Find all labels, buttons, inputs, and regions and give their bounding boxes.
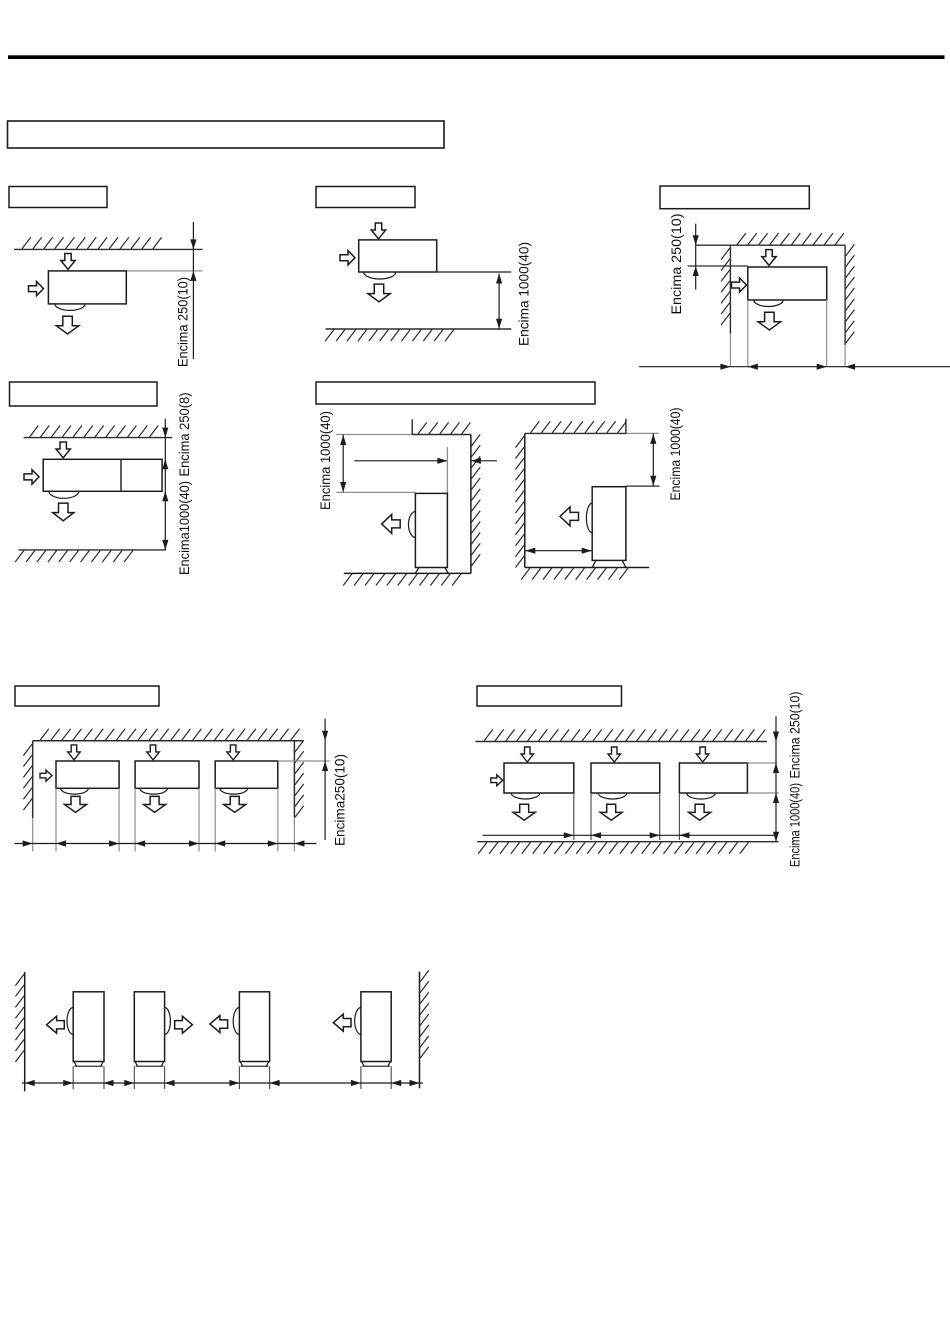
D1 ceiling hatch [22, 237, 162, 249]
D4 fan arc [49, 491, 79, 498]
D1 arrowhead at unit top [190, 271, 196, 281]
D8 unit3 outlet arrow [210, 1016, 228, 1033]
D6 unit 3 left extension line [214, 788, 216, 851]
D4 dimension line [164, 419, 166, 550]
svg-text:Encima1000(40): Encima1000(40) [177, 481, 192, 575]
D7 unit 2 [591, 763, 660, 793]
svg-text:Encima 1000(40): Encima 1000(40) [788, 783, 803, 867]
D2 indoor unit [359, 240, 437, 272]
D1 side intake arrow [29, 282, 44, 296]
D6 unit 3 fan arc [220, 788, 248, 794]
D6 unit3 top extension line [278, 760, 330, 762]
D6 arrowhead at unit top [322, 761, 328, 771]
D6 unit 2 outlet arrow [144, 796, 166, 812]
D7 unit 2 fan arc [598, 793, 627, 799]
D5L ceiling line [412, 434, 471, 436]
D5L ceiling extension line [336, 434, 412, 436]
D5R left wall [524, 433, 526, 567]
D5 label box [316, 382, 595, 404]
D7 floor line [477, 841, 778, 843]
D5L floor unit [415, 493, 447, 567]
D7 unit3 bottom extension line [747, 792, 779, 794]
D7 arrowheads [773, 732, 779, 842]
D8 unit 3 left extension line [238, 1066, 240, 1089]
D7 right dimension line [775, 716, 777, 841]
D8 unit 4 right extension line [390, 1066, 392, 1089]
D2 outlet arrow [368, 284, 390, 302]
D1 unit-top extension line [126, 270, 202, 272]
D7 unit 3 intake arrow [696, 747, 709, 762]
D5L arrowhead right [437, 458, 447, 464]
D5R ceiling line [525, 432, 626, 434]
D7 extension lines to bottom dim [574, 793, 680, 840]
D2 arrowhead bottom [496, 319, 502, 329]
D3 arrowhead at ceiling [693, 235, 699, 245]
D6 right wall hatch [295, 740, 304, 817]
D3 left wall hatch [721, 248, 730, 325]
D5R unit feet [592, 560, 626, 567]
D5L wall hatch [471, 434, 480, 566]
D8 unit 2 left extension line [133, 1066, 135, 1089]
D4 indoor unit with duct [43, 459, 162, 491]
D5R floor hatch [521, 568, 628, 580]
D8 unit 3 right extension line [269, 1066, 271, 1089]
D8 left wall hatch [15, 974, 24, 1062]
D5L floor hatch [343, 574, 461, 586]
D2 arrowhead top [496, 274, 502, 284]
D7 unit 2 outlet arrow [600, 804, 622, 820]
D6 unit 2 fan arc [140, 788, 168, 794]
D6 unit 2 [135, 761, 199, 788]
D8 unit2 outlet arrow [175, 1016, 193, 1033]
D3 left wall extension [729, 334, 731, 367]
D4 side intake arrow [24, 470, 39, 484]
D3 ceiling line [696, 244, 845, 246]
D5R arrowhead bottom [650, 476, 656, 486]
D6 arrowhead at ceiling [322, 731, 328, 741]
D2 fan arc [364, 272, 396, 279]
D6 unit 2 left extension line [134, 788, 136, 851]
D5R floor line [525, 567, 649, 569]
D8 unit 3 [239, 992, 269, 1062]
D5L outlet arrow [382, 514, 401, 533]
D3 label box [660, 186, 809, 209]
D7 floor hatch [478, 842, 748, 854]
D5L unit-top extension line [336, 491, 415, 493]
D8 unit 2 right extension line [164, 1066, 166, 1089]
D3 unit-right extension line [826, 300, 828, 367]
D5R bottom dimension line [525, 550, 592, 552]
svg-text:Encima 250(10): Encima 250(10) [788, 692, 803, 779]
D1 intake arrow [61, 254, 75, 270]
D1 indoor unit [48, 271, 126, 304]
svg-text:Encima 250(8): Encima 250(8) [177, 393, 192, 477]
D5R wall hatch [516, 436, 525, 568]
title box (empty) [8, 121, 445, 148]
D8 unit 2 feet [135, 1062, 164, 1067]
D3 side intake arrow [732, 278, 747, 292]
D1 arrowhead at ceiling [190, 239, 196, 249]
D3 right wall hatch [846, 244, 855, 343]
D6 unit 1 intake arrow [68, 745, 81, 760]
D5L right wall [470, 435, 472, 574]
D8 unit1 outlet arrow [47, 1016, 65, 1033]
D2 floor hatch [325, 330, 454, 342]
D6 unit 3 outlet arrow [224, 796, 246, 812]
D8 unit 2 [134, 992, 164, 1062]
D3 unit-left extension line [747, 300, 749, 367]
D7 unit 2 intake arrow [608, 747, 621, 762]
D7 side intake arrow [491, 775, 503, 786]
D3 indoor unit [748, 267, 827, 300]
D5L wall-side tail line [471, 460, 497, 462]
D8 right wall hatch [420, 970, 429, 1058]
D5R ceiling extension line [626, 432, 659, 434]
D3 intake arrow [762, 250, 776, 266]
D7 unit 3 outlet arrow [689, 804, 711, 820]
D4 floor line [19, 549, 167, 551]
D6 left wall hatch [23, 744, 32, 810]
D5L ceiling hatch [418, 422, 470, 434]
D2 side intake arrow [340, 251, 355, 265]
D5L unit feet [415, 568, 448, 574]
D8 unit 1 [73, 992, 104, 1062]
D6 unit 2 right extension line [198, 788, 200, 851]
page top rule [8, 55, 945, 59]
svg-text:Encima 1000(40): Encima 1000(40) [668, 408, 683, 501]
svg-text:Encima 1000(40): Encima 1000(40) [517, 242, 532, 346]
D5L unit-right extension line [446, 447, 448, 493]
D4 ceiling hatch [30, 426, 159, 438]
D6 ceiling line [33, 740, 303, 742]
D3 bottom dimension line [639, 366, 950, 368]
D5R arrowhead left [525, 548, 535, 554]
D6 left wall extension [32, 818, 34, 852]
D7 unit 1 fan arc [511, 793, 540, 799]
D8 unit2 fan arc [165, 1008, 171, 1035]
svg-text:Encima250(10): Encima250(10) [333, 754, 348, 846]
D8 unit 4 feet [362, 1062, 391, 1067]
D2 unit-bottom extension line [437, 271, 512, 273]
D6 unit 1 outlet arrow [65, 796, 87, 812]
D6 unit 2 intake arrow [147, 745, 160, 760]
D7 unit3 top extension line [747, 762, 777, 764]
D8 unit 4 left extension line [360, 1066, 362, 1089]
svg-text:Encima 250(10): Encima 250(10) [176, 277, 191, 367]
D3 right wall line [844, 245, 846, 345]
D3 right wall extension [844, 345, 846, 367]
svg-text:Encima 250(10): Encima 250(10) [669, 214, 684, 315]
D8 bottom dimension line [22, 1082, 423, 1084]
D8 unit 3 feet [240, 1062, 269, 1067]
D8 unit 1 left extension line [72, 1066, 74, 1089]
D5L vertical dimension line [342, 435, 344, 493]
D6 bottom dimension line [15, 843, 317, 845]
D6 side intake arrow [40, 770, 52, 781]
D6 right wall [293, 741, 295, 817]
D2 label box [316, 187, 415, 208]
D6 unit 1 left extension line [55, 788, 57, 851]
D6 unit 3 intake arrow [227, 745, 240, 760]
D6 bottom arrowheads [23, 840, 305, 846]
D7 unit 1 [504, 763, 574, 793]
D4 arrowheads [162, 428, 168, 550]
D1 label box [9, 187, 107, 208]
D8 right wall [419, 972, 421, 1089]
D5L arrowhead bottom [340, 482, 346, 492]
D4 outlet arrow [53, 503, 74, 521]
D8 unit 1 right extension line [103, 1066, 105, 1089]
D2 dimension line [498, 274, 500, 329]
D5L arrowhead at wall [471, 458, 481, 464]
D6 ceiling hatch [40, 729, 300, 741]
D8 unit4 fan arc [355, 1008, 361, 1035]
D7 bottom arrowheads [564, 832, 690, 838]
D8 unit 1 feet [74, 1062, 103, 1067]
D6 unit 3 right extension line [277, 788, 279, 851]
D4 label box [10, 382, 158, 406]
D7 ceiling line [475, 741, 767, 743]
D6 unit 1 fan arc [61, 788, 89, 794]
D6 unit 1 right extension line [118, 788, 120, 851]
D3 dimension line [695, 224, 697, 290]
D8 bottom arrowheads [25, 1080, 420, 1086]
D8 left wall [24, 972, 26, 1091]
D5L floor line [344, 572, 471, 574]
D1 outlet arrow [56, 316, 79, 334]
D1 dimension line [192, 222, 194, 359]
D8 unit4 outlet arrow [333, 1014, 351, 1031]
D7 unit 1 intake arrow [521, 747, 534, 762]
D5R floor unit [592, 487, 626, 561]
D4 intake arrow [56, 442, 70, 458]
D3 bottom arrowheads [720, 364, 855, 370]
D5R arrowhead top [650, 434, 656, 444]
D8 unit1 fan arc [67, 1008, 73, 1035]
D4 ceiling line [24, 437, 173, 439]
D5R unit-top extension line [626, 485, 660, 487]
D3 left wall line [729, 245, 731, 334]
D5L ceiling tick [411, 419, 413, 434]
D7 unit 1 outlet arrow [513, 804, 535, 820]
D6 unit 1 [56, 761, 119, 788]
D5R ceiling tick [625, 419, 627, 434]
D5R ceiling hatch [531, 421, 627, 433]
D6 label box [15, 686, 159, 706]
D1 ceiling line [14, 248, 203, 250]
D3 fan arc [754, 300, 783, 307]
D5R outlet arrow [560, 507, 579, 526]
D7 unit 3 fan arc [687, 793, 716, 799]
D7 label box [477, 686, 622, 706]
D5R arrowhead right [582, 548, 592, 554]
D3 outlet arrow [758, 312, 781, 330]
D4 floor hatch [15, 550, 133, 562]
D5L arrowhead top [340, 435, 346, 445]
D1 fan arc [55, 304, 85, 310]
D4 unit internal divider [120, 459, 122, 491]
D3 unit-top extension line [688, 265, 748, 267]
D3 arrowhead at unit top [693, 266, 699, 276]
D6 right dimension line [324, 719, 326, 841]
D3 ceiling hatch [737, 233, 844, 245]
D5L fan arc [408, 511, 415, 537]
D8 unit 4 [361, 992, 391, 1062]
D5L horizontal dimension line [354, 460, 447, 462]
D2 intake arrow [371, 223, 385, 239]
D6 unit 3 [215, 761, 278, 788]
D5R dimension line [652, 433, 654, 486]
D7 ceiling hatch [484, 729, 765, 741]
D7 bottom dimension line [483, 834, 777, 836]
D8 unit3 fan arc [233, 1008, 239, 1035]
D6 right wall extension [293, 817, 295, 852]
D6 left wall [32, 741, 34, 818]
svg-text:Encima 1000(40): Encima 1000(40) [318, 411, 333, 510]
D5R fan arc [586, 503, 592, 533]
D2 floor line [326, 328, 512, 330]
D7 unit 3 [679, 763, 747, 793]
